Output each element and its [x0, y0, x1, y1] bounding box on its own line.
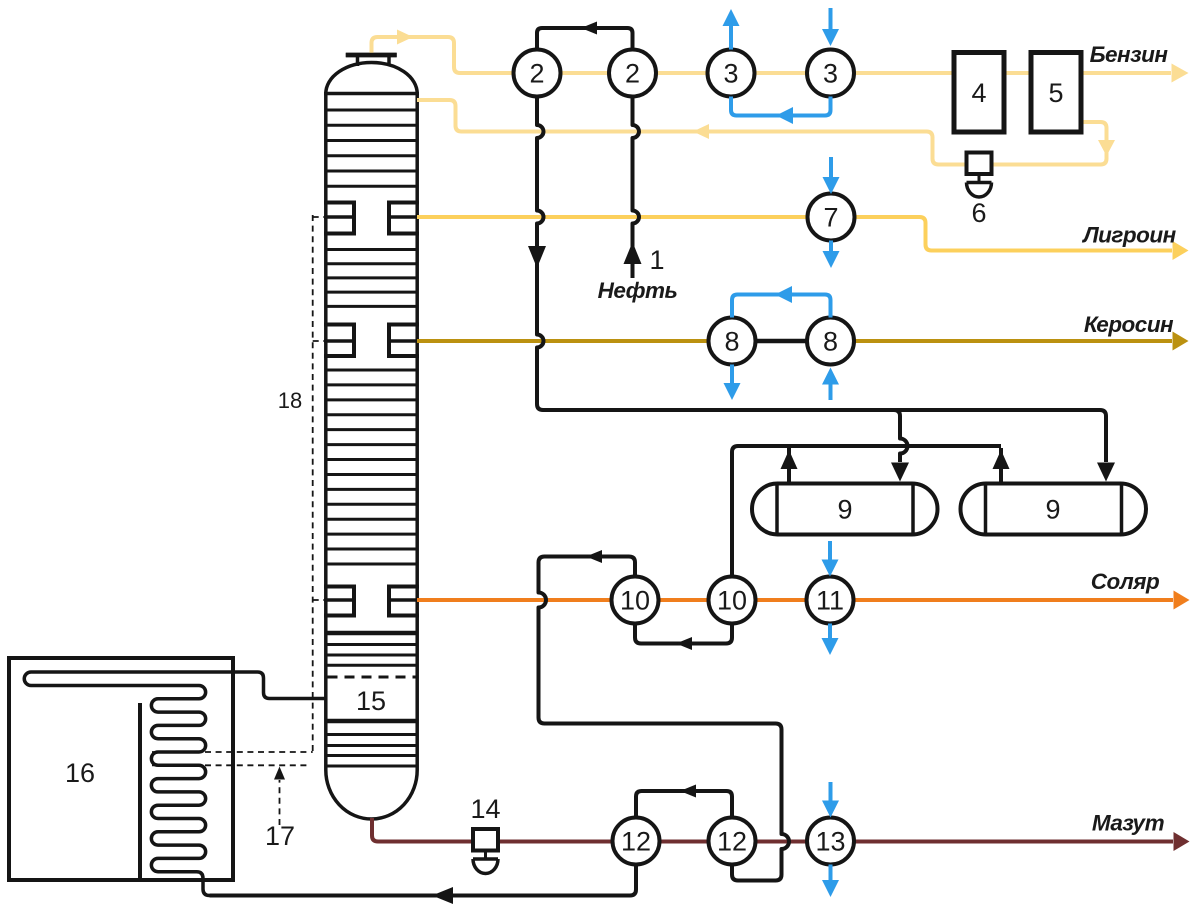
svg-text:5: 5 — [1048, 78, 1063, 108]
svg-text:11: 11 — [816, 586, 844, 616]
svg-text:Лигроин: Лигроин — [1081, 223, 1176, 248]
svg-text:13: 13 — [815, 827, 845, 857]
svg-text:7: 7 — [823, 203, 838, 233]
svg-text:12: 12 — [621, 827, 651, 857]
svg-text:12: 12 — [717, 827, 747, 857]
svg-text:10: 10 — [620, 586, 650, 616]
svg-text:9: 9 — [837, 495, 852, 525]
svg-text:16: 16 — [65, 758, 95, 788]
svg-text:Нефть: Нефть — [598, 278, 678, 303]
svg-text:Бензин: Бензин — [1090, 42, 1169, 67]
svg-text:15: 15 — [356, 686, 386, 716]
svg-text:14: 14 — [470, 794, 500, 824]
svg-text:2: 2 — [625, 59, 640, 89]
svg-text:10: 10 — [717, 586, 747, 616]
svg-text:2: 2 — [529, 59, 544, 89]
svg-text:Керосин: Керосин — [1084, 312, 1174, 337]
svg-text:4: 4 — [971, 78, 986, 108]
svg-text:18: 18 — [278, 388, 302, 413]
svg-text:3: 3 — [723, 59, 738, 89]
svg-text:9: 9 — [1045, 495, 1060, 525]
svg-text:Мазут: Мазут — [1092, 811, 1165, 836]
svg-text:3: 3 — [823, 59, 838, 89]
svg-text:8: 8 — [823, 327, 838, 357]
svg-text:17: 17 — [265, 821, 295, 851]
svg-text:Соляр: Соляр — [1091, 569, 1160, 594]
svg-text:1: 1 — [649, 245, 664, 275]
svg-text:8: 8 — [724, 327, 739, 357]
svg-text:6: 6 — [971, 198, 986, 228]
